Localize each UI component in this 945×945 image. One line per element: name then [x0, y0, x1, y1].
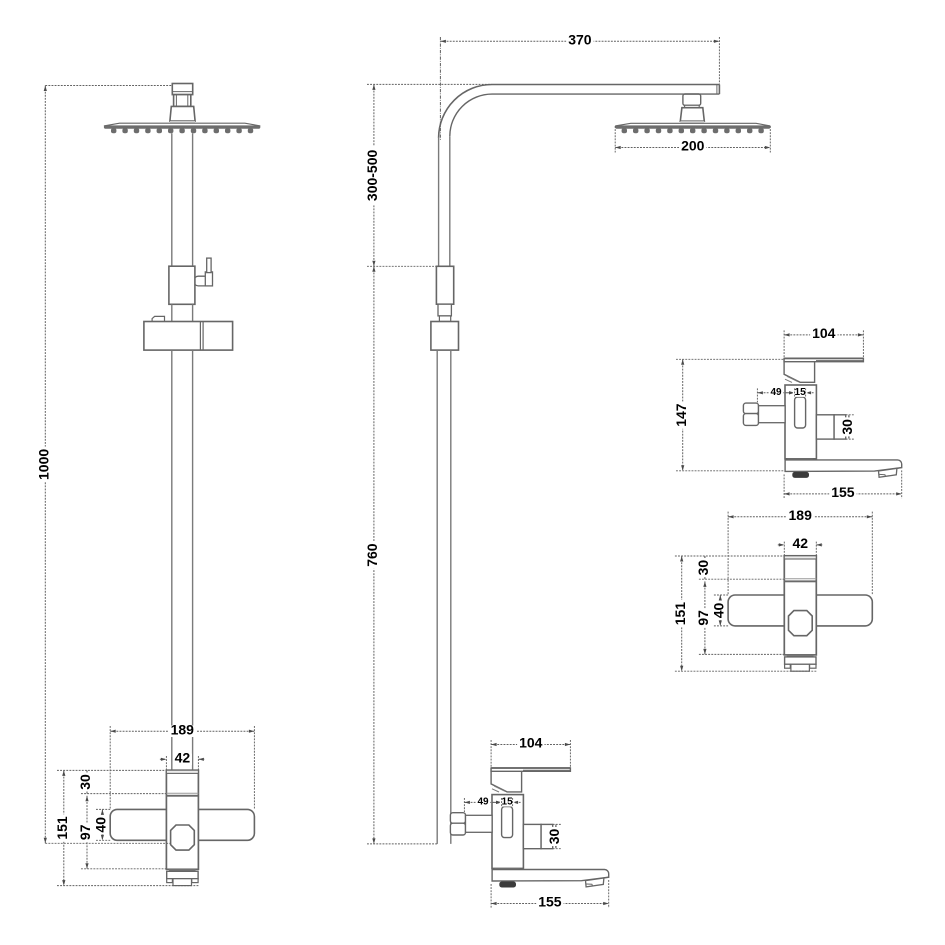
dim 370 right extension: [718, 37, 720, 84]
faucet body top band (front view faucet): [166, 770, 198, 773]
dim 189 extension lines (detail top view): [727, 512, 729, 595]
cartridge (detail side view): [795, 397, 806, 428]
faucet handle bar (detail top view): [728, 595, 872, 626]
dim 155 (side view faucet): [491, 903, 609, 905]
diverter lever foot: [205, 272, 212, 286]
svg-text:30: 30: [546, 829, 562, 845]
extension stubs handle (detail top view): [714, 594, 728, 596]
dim 42 extension lines (front view faucet): [165, 756, 167, 770]
shower head plate bar (front view): [104, 125, 260, 128]
dim 30 extension stubs (detail side view): [846, 414, 855, 416]
svg-text:370: 370: [568, 32, 592, 48]
svg-text:147: 147: [673, 403, 689, 427]
dim 200 extension lines: [614, 126, 616, 153]
dim 49-15 extension lines (side view faucet): [463, 798, 465, 812]
extension line body bottom (front view faucet): [81, 868, 166, 870]
dim 155 (detail side view): [784, 493, 902, 495]
dim 15 (side view faucet): [494, 801, 502, 803]
svg-text:15: 15: [795, 387, 807, 398]
shower head base shade (front view): [170, 121, 195, 123]
faucet spout octagon (detail top view): [789, 611, 813, 636]
shower arm with curve (side view): [439, 85, 720, 138]
dim 49-15 extension lines (detail side view): [756, 388, 758, 402]
check valve cap (detail side view): [834, 415, 846, 439]
diverter lever stem: [207, 258, 211, 273]
faucet body (front view faucet): [166, 770, 198, 869]
dim 30 check valve (detail side view): [848, 415, 850, 439]
check valve block (side view faucet): [523, 824, 541, 848]
shower head base (side view): [680, 108, 704, 122]
svg-text:155: 155: [538, 894, 562, 910]
hose nut top (detail side view): [743, 403, 758, 414]
slider bracket tab: [152, 316, 164, 321]
faucet bottom cap (detail top view): [785, 657, 816, 664]
hose nut bottom (detail side view): [743, 414, 758, 426]
faucet bottom cap (front view faucet): [167, 871, 198, 878]
dim 1000 top extension line: [45, 85, 172, 87]
spout tip outlet (detail side view): [879, 468, 897, 477]
dim 30 check valve (side view faucet): [555, 824, 557, 848]
dim 104 extension lines (side view faucet): [490, 740, 492, 768]
pipe union block (side view): [431, 322, 459, 351]
svg-text:155: 155: [831, 484, 855, 500]
dim 104 extension lines (detail side view): [783, 330, 785, 358]
cartridge (side view faucet): [502, 807, 513, 838]
shower head base shade (side view): [680, 121, 704, 123]
dim 30 (front view faucet): [86, 770, 88, 793]
dim 760 bottom extension: [367, 843, 437, 845]
shower head nozzles (side view): [622, 128, 627, 133]
riser pipe lower segment (front view): [171, 350, 173, 770]
extension stubs handle (front view faucet): [96, 808, 110, 810]
dim 300-500: [373, 84, 375, 266]
body bottom dark band (side view faucet): [494, 868, 519, 870]
lever bar (side view faucet): [491, 768, 570, 771]
faucet bottom dark band (front view faucet): [169, 869, 196, 871]
aerator pad (detail side view): [792, 472, 809, 478]
svg-text:42: 42: [793, 535, 809, 551]
dim 760: [373, 266, 375, 844]
dim 42 (detail top view): [778, 544, 785, 546]
slider bracket body: [144, 322, 233, 351]
svg-text:30: 30: [695, 560, 711, 576]
svg-text:1000: 1000: [36, 449, 52, 480]
dim 200: [615, 147, 770, 149]
svg-text:30: 30: [839, 419, 855, 435]
svg-text:104: 104: [812, 325, 836, 341]
spout tip outlet (side view faucet): [586, 878, 604, 887]
check valve cap (side view faucet): [541, 824, 553, 848]
extension line body top (front view faucet): [57, 769, 166, 771]
svg-text:97: 97: [695, 610, 711, 626]
svg-text:40: 40: [93, 817, 109, 833]
svg-text:40: 40: [711, 603, 727, 619]
faucet bottom nub (detail top view): [791, 664, 810, 671]
lever hub hatch (detail side view): [787, 376, 798, 381]
lever hub (side view faucet): [491, 768, 521, 792]
hose nipple (side view faucet): [466, 815, 493, 832]
faucet bottom nub (front view faucet): [173, 879, 192, 886]
dim 40 (detail top view): [719, 595, 721, 626]
dim 97 (front view faucet): [86, 796, 88, 869]
lever bar (detail side view): [784, 358, 863, 361]
hose nut top (side view faucet): [450, 813, 465, 824]
dim 15 (detail side view): [787, 392, 795, 394]
shower head plate bar (side view): [615, 125, 770, 128]
extension line joint (front view faucet): [81, 793, 166, 795]
riser pipe upper segment (front view): [171, 133, 173, 266]
dim 1000 vertical dimension line: [44, 86, 46, 844]
dim 147 extension lines: [676, 358, 784, 360]
extension line joint (detail top view): [699, 578, 784, 580]
riser pipe segment below diverter (front view): [171, 304, 173, 321]
pipe union collar (side view): [438, 304, 451, 316]
faucet bottom flange left (detail top view): [785, 664, 791, 668]
lever hub (detail side view): [784, 358, 815, 382]
dim 155 extension lines (detail side view): [783, 474, 785, 498]
riser pipe upper (side view): [438, 138, 440, 266]
dim 155 extension lines (side view faucet): [490, 884, 492, 908]
shower head nut (front view): [174, 95, 191, 107]
shower arm end cap: [718, 85, 720, 95]
slider bracket divider lines: [199, 322, 201, 351]
dim 370 left extension: [439, 37, 441, 141]
faucet bottom flange right (detail top view): [810, 664, 816, 668]
svg-text:200: 200: [681, 138, 705, 154]
dim 42 extension lines (detail top view): [783, 542, 785, 556]
extension line body bottom (detail top view): [699, 653, 784, 655]
dim 40 (front view faucet): [101, 809, 103, 840]
dim 49 (detail side view): [757, 392, 794, 394]
extension line body top (detail top view): [675, 555, 784, 557]
pipe union inner ring (side view): [439, 316, 450, 322]
dim 300-500 bottom extension: [367, 265, 436, 267]
dim 97 (detail top view): [704, 581, 706, 654]
faucet bottom flange right (front view faucet): [192, 879, 198, 883]
diverter body: [169, 266, 195, 304]
faucet body top band (detail top view): [784, 556, 816, 559]
svg-text:30: 30: [77, 774, 93, 790]
svg-text:151: 151: [672, 602, 688, 626]
body bottom dark band (detail side view): [787, 459, 812, 461]
dim 151 (front view faucet): [63, 770, 65, 885]
shower head nozzles (front view): [111, 128, 116, 133]
dim 1000 bottom extension line: [45, 842, 170, 844]
dim 104 (detail side view): [784, 334, 863, 336]
svg-text:189: 189: [171, 721, 195, 737]
spout (detail side view): [785, 460, 902, 472]
faucet bottom flange left (front view faucet): [167, 879, 173, 883]
faucet spout octagon (front view faucet): [171, 825, 195, 850]
svg-text:49: 49: [477, 797, 489, 808]
svg-text:97: 97: [77, 824, 93, 840]
dim 30 extension stubs (side view faucet): [553, 823, 562, 825]
pipe union nut (side view): [436, 266, 453, 304]
dim 300-500 top extension: [367, 83, 491, 85]
hose nut bottom (side view faucet): [450, 823, 465, 835]
faucet body joint line (detail top view): [784, 578, 816, 580]
shower head ring (side view): [685, 105, 700, 107]
dim 42 (front view faucet): [160, 758, 167, 760]
shower head plate bevel (side view): [615, 123, 770, 126]
faucet bottom dark band (detail top view): [787, 655, 814, 657]
dim 189 (front view faucet): [110, 730, 254, 732]
svg-text:42: 42: [175, 750, 191, 766]
spout (side view faucet): [492, 870, 609, 882]
svg-text:151: 151: [54, 816, 70, 840]
shower head plate bevel (front view): [104, 123, 260, 126]
diverter lever arm: [194, 276, 212, 286]
svg-text:15: 15: [502, 797, 514, 808]
faucet handle bar (front view faucet): [110, 809, 254, 840]
shower head connector (side view): [683, 94, 701, 105]
check valve block (detail side view): [816, 415, 834, 439]
hose nipple (detail side view): [759, 406, 786, 423]
dim 30 (detail top view): [704, 556, 706, 579]
extension line cap bottom (front view faucet): [57, 885, 198, 887]
dim 189 (detail top view): [728, 516, 872, 518]
svg-text:49: 49: [770, 387, 782, 398]
shower head top connector (front view): [172, 84, 192, 95]
svg-text:300-500: 300-500: [364, 150, 380, 202]
dim 151 (detail top view): [681, 556, 683, 671]
svg-text:104: 104: [519, 735, 543, 751]
dim 147 (detail side view): [682, 359, 684, 471]
riser pipe lower (side view): [436, 350, 438, 844]
extension line cap bottom (detail top view): [675, 670, 816, 672]
faucet body side (detail side view): [785, 385, 816, 459]
svg-text:189: 189: [789, 507, 813, 523]
dim 104 (side view faucet): [491, 744, 570, 746]
lever hub hatch (side view faucet): [494, 786, 505, 791]
shower head base (front view): [170, 106, 195, 121]
faucet body side (side view faucet): [492, 795, 523, 869]
svg-text:760: 760: [364, 543, 380, 567]
dim 49 (side view faucet): [464, 801, 501, 803]
dim 189 extension lines (front view faucet): [109, 726, 111, 809]
dim 370: [440, 40, 719, 42]
faucet body joint line (front view faucet): [166, 792, 198, 794]
faucet body (detail top view): [784, 556, 816, 655]
aerator pad (side view faucet): [499, 882, 516, 888]
